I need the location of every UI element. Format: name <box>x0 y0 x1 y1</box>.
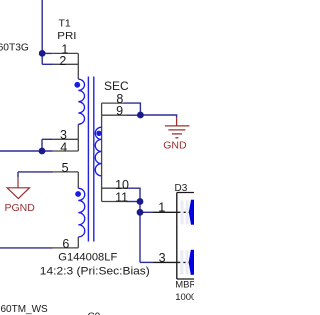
svg-text:C9: C9 <box>88 312 101 315</box>
svg-text:60T3G: 60T3G <box>0 43 29 54</box>
svg-text:G144008LF: G144008LF <box>58 252 117 264</box>
svg-text:14:2:3 (Pri:Sec:Bias): 14:2:3 (Pri:Sec:Bias) <box>40 266 150 278</box>
svg-text:PRI: PRI <box>57 30 76 42</box>
svg-text:SEC: SEC <box>104 79 129 93</box>
svg-text:9: 9 <box>116 104 123 118</box>
svg-text:1000: 1000 <box>175 292 194 303</box>
svg-text:GND: GND <box>163 139 187 151</box>
svg-text:60TM_WS: 60TM_WS <box>1 304 49 315</box>
svg-text:11: 11 <box>115 190 128 204</box>
svg-text:PGND: PGND <box>5 202 36 214</box>
svg-text:MBRF: MBRF <box>175 279 194 290</box>
svg-text:6: 6 <box>62 237 69 251</box>
svg-text:1: 1 <box>158 201 165 215</box>
svg-text:2: 2 <box>59 54 66 68</box>
svg-text:4: 4 <box>60 141 67 155</box>
svg-text:D3: D3 <box>175 183 188 194</box>
svg-text:5: 5 <box>62 161 69 175</box>
svg-text:3: 3 <box>159 251 166 265</box>
svg-text:T1: T1 <box>59 18 71 30</box>
